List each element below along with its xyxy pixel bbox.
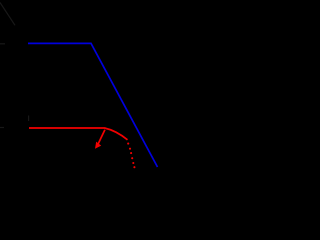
tick at left edge near blue level [0, 43, 5, 45]
tick above red start [28, 116, 30, 122]
tick at left edge near red level [0, 127, 4, 129]
red dotted continuation [127, 143, 135, 169]
red arrow [95, 130, 105, 149]
corner diagonal (dark stroke) [0, 3, 15, 26]
blue trajectory [28, 43, 158, 167]
red trajectory solid [29, 128, 128, 140]
